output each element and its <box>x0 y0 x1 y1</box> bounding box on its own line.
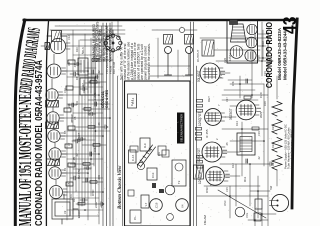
capacitor C22 <box>246 79 248 83</box>
chassis part dark lug A <box>152 183 156 188</box>
resistor cluster above V1 <box>197 155 203 168</box>
antenna coil assembly A <box>78 58 88 75</box>
svg-text:C9: C9 <box>75 101 79 105</box>
wire grid schematic1 horizontals <box>70 30 99 224</box>
svg-text:R5: R5 <box>63 130 67 134</box>
svg-text:C-16: C-16 <box>131 154 135 161</box>
svg-text:43: 43 <box>280 17 300 35</box>
banner bottom rule <box>46 20 48 226</box>
wire pilot stub <box>152 29 197 31</box>
resistor R5 <box>88 126 95 129</box>
ground G6 <box>268 59 273 63</box>
svg-text:FM-AM: FM-AM <box>203 215 207 225</box>
chassis part plug rect <box>130 210 141 223</box>
svg-text:R11: R11 <box>243 176 247 182</box>
additional long bus wires schematic1 <box>67 26 102 220</box>
svg-text:C20: C20 <box>259 92 263 98</box>
svg-text:10K: 10K <box>93 147 97 152</box>
svg-text:T2: T2 <box>177 180 181 184</box>
svg-text:C-14: C-14 <box>131 97 135 104</box>
svg-text:C5: C5 <box>67 182 71 186</box>
svg-text:C10: C10 <box>63 88 67 93</box>
extra small capacitors schematic1 <box>80 198 87 201</box>
layout speaker cone hatched <box>231 24 247 42</box>
wires bottom left <box>248 191 276 226</box>
svg-text:C9: C9 <box>157 152 161 156</box>
svg-text:R3: R3 <box>72 198 76 202</box>
wire to resistors <box>276 76 278 186</box>
resistor blobs near tube row <box>64 60 75 186</box>
svg-text:C17: C17 <box>225 97 229 102</box>
svg-text:.02: .02 <box>75 153 79 157</box>
svg-text:12SK7GT: 12SK7GT <box>197 148 201 162</box>
layout socket V2 <box>245 50 256 61</box>
svg-text:AVC: AVC <box>87 109 91 116</box>
selenium rectifier black label <box>177 113 184 144</box>
svg-text:Model 05RA33-43-8244A: Model 05RA33-43-8244A <box>283 28 288 80</box>
explanatory paragraph <box>120 42 151 80</box>
resistor zigzag R21 <box>272 155 282 170</box>
trimmer caps near tube row <box>68 72 81 180</box>
svg-text:C7: C7 <box>67 142 71 146</box>
schematic1 tube V1 12SA7 <box>50 186 68 199</box>
chassis part electrolytic can <box>150 199 163 212</box>
resistor R2 <box>90 181 97 184</box>
chassis part C-13 <box>147 168 157 180</box>
svg-text:R7: R7 <box>81 83 85 87</box>
schematic1 tube V4 <box>48 130 65 142</box>
resistor R3 <box>83 163 90 166</box>
filter cap A <box>164 35 173 76</box>
svg-text:47K: 47K <box>231 81 235 86</box>
extra labels schematic2 <box>223 41 275 218</box>
svg-text:mounted on the chassis.: mounted on the chassis. <box>147 43 151 80</box>
chassis part L7 coil <box>141 195 149 208</box>
right rail wires <box>55 21 125 38</box>
svg-text:OSC & RES: OSC & RES <box>105 89 109 108</box>
schematic2 tube V1 12SA7 <box>206 167 230 186</box>
candohm resistor block <box>255 199 262 209</box>
chassis part socket S3 <box>165 185 175 195</box>
svg-text:35Z5: 35Z5 <box>259 111 263 118</box>
resistor R6 <box>84 108 91 111</box>
schematic2 wire verticals <box>197 38 268 196</box>
output transformer T4 <box>237 133 255 155</box>
chassis part small circle C <box>167 214 174 221</box>
schematic1 tube V6 <box>46 89 63 101</box>
chassis part small square B <box>130 146 138 152</box>
volume control pot <box>235 207 245 217</box>
schematic2 labels <box>196 50 263 194</box>
additional vertical wires schematic1 <box>67 35 110 210</box>
svg-text:R9: R9 <box>75 76 79 80</box>
svg-text:.02: .02 <box>97 70 101 74</box>
dial cord hatched bar <box>137 145 156 170</box>
chassis part tube socket S2 <box>176 199 189 212</box>
schematic2 tube V2 12SK7 <box>202 142 227 162</box>
svg-text:.05: .05 <box>97 122 101 126</box>
svg-text:.05: .05 <box>225 142 229 146</box>
schematic1 IF transformer T2 <box>46 122 59 129</box>
chassis part trimmer strip <box>158 146 166 155</box>
wire grid schematic1 verticals <box>50 30 125 216</box>
chassis part trimmer <box>162 150 169 157</box>
svg-text:C18: C18 <box>155 202 159 208</box>
junction dots schematic2 <box>229 37 269 197</box>
schematic1 tube V3 <box>49 148 66 160</box>
svg-text:CORONADO RADIO: CORONADO RADIO <box>265 22 274 88</box>
tube layout box <box>227 20 258 63</box>
B+ bus lines <box>103 23 113 226</box>
svg-text:L7: L7 <box>144 202 148 206</box>
ground G5 <box>268 162 273 166</box>
svg-text:OSC: OSC <box>205 186 209 193</box>
chassis part T2 <box>172 160 186 186</box>
layout socket V1 <box>230 46 243 59</box>
tube socket key circle <box>104 34 122 52</box>
filter cap B <box>185 35 194 76</box>
svg-text:C13: C13 <box>151 172 155 178</box>
svg-text:R23: R23 <box>271 125 275 130</box>
wire vertical drops schematic1 <box>59 46 110 192</box>
layout magnet rect <box>230 20 238 25</box>
schematic1 IF transformer T3 <box>46 101 59 108</box>
voltage note text block <box>92 21 113 62</box>
resistor R4 <box>93 144 100 147</box>
svg-text:OUTPUT: OUTPUT <box>196 50 200 63</box>
svg-text:22K: 22K <box>67 103 71 108</box>
ground symbol G1 <box>99 202 104 206</box>
schematic1 output tube V8 with grid cap <box>41 38 70 53</box>
chassis part gang cond <box>128 94 137 108</box>
svg-text:BOTTOM: BOTTOM <box>112 61 116 74</box>
speaker <box>270 194 289 211</box>
chassis labels <box>130 97 185 220</box>
resistor zigzag R22 <box>272 137 282 152</box>
svg-text:.02: .02 <box>257 156 261 160</box>
chassis part dark lug B <box>159 189 164 193</box>
svg-text:IF 455: IF 455 <box>205 129 209 138</box>
svg-text:12SA7: 12SA7 <box>228 53 232 61</box>
svg-text:DET: DET <box>207 96 211 102</box>
capacitor C2 <box>90 152 92 156</box>
capacitor C4 <box>92 70 94 74</box>
label C8 C9 C10 <box>101 89 109 108</box>
svg-text:Model 05RA33-43-8233A: Model 05RA33-43-8233A <box>277 28 282 80</box>
svg-text:V4: V4 <box>181 204 185 208</box>
schematic1 tube V7 <box>47 64 66 78</box>
resistor R7 <box>90 81 97 84</box>
power supply note <box>284 124 294 169</box>
layout socket V4 <box>247 24 257 34</box>
oscillator coil hatched <box>47 31 67 42</box>
svg-text:1MEG: 1MEG <box>93 93 97 100</box>
svg-text:P.L.: P.L. <box>133 215 137 220</box>
svg-text:C1: C1 <box>69 194 73 198</box>
antenna coil assembly B <box>80 78 95 95</box>
svg-text:SELENIUM RECTIFIER: SELENIUM RECTIFIER <box>179 113 183 142</box>
schematic2 small parts <box>244 96 251 99</box>
svg-text:R14: R14 <box>235 121 239 126</box>
resistor cluster above V3 <box>197 99 203 112</box>
chassis part small square A <box>128 190 134 196</box>
wires below layout box <box>258 30 268 60</box>
extra labels schematic1 <box>63 35 101 214</box>
resistor R8 <box>92 59 99 62</box>
schematic2 output IF transformer <box>202 40 214 56</box>
svg-text:C8: C8 <box>73 116 77 120</box>
wires mid right gap <box>85 62 103 86</box>
on-off switch <box>254 213 261 221</box>
svg-text:.005: .005 <box>97 174 101 180</box>
diagonal dial wire <box>218 190 266 218</box>
svg-text:VOL: VOL <box>245 212 249 218</box>
schematic2 tube V4 50L6 <box>200 63 225 83</box>
svg-text:OSC: OSC <box>223 200 227 206</box>
layout socket V3 <box>246 37 257 48</box>
capacitor C1 <box>86 178 88 182</box>
svg-text:R19: R19 <box>253 33 257 38</box>
svg-text:MAXIMUM POSITION.: MAXIMUM POSITION. <box>109 27 113 62</box>
schematic1 tube V2 <box>49 167 66 179</box>
junction dots schematic1 <box>84 70 111 211</box>
svg-text:OSC: OSC <box>91 189 95 196</box>
svg-text:150: 150 <box>93 43 97 48</box>
svg-text:C11: C11 <box>67 61 71 66</box>
chassis part C-16 can <box>129 150 137 163</box>
svg-text:Bottom Chassis View: Bottom Chassis View <box>118 165 123 210</box>
chassis view box outline <box>125 81 191 226</box>
resistor zigzag R24 <box>272 101 282 116</box>
svg-text:T3: T3 <box>219 74 223 78</box>
svg-text:R22: R22 <box>271 143 275 148</box>
svg-text:R-9: R-9 <box>143 143 147 148</box>
schematic1 IF transformer T1 <box>47 159 60 166</box>
ground symbol G2 <box>103 125 108 129</box>
schematic2 bus wires <box>191 22 197 226</box>
svg-text:C12: C12 <box>67 35 71 40</box>
svg-text:Intermediate Frequency—455 KC.: Intermediate Frequency—455 KC. <box>290 128 294 169</box>
svg-text:C15: C15 <box>225 187 229 192</box>
layout labels <box>228 53 261 61</box>
schematic2 tube V3 12SQ7 <box>205 109 226 126</box>
resistor zigzag R23 <box>272 119 282 134</box>
bus wires above chassis box <box>118 76 123 226</box>
socket key labels <box>105 61 116 74</box>
mid wires right of chassis box <box>148 38 190 80</box>
capacitor C13 mid <box>96 75 98 79</box>
schematic2 rectifier tube V5 35Z5 <box>236 100 260 120</box>
svg-text:R12: R12 <box>231 163 235 168</box>
resistor R15 <box>252 127 259 130</box>
svg-text:220K: 220K <box>94 202 98 208</box>
wire detector drops <box>222 80 258 100</box>
svg-text:R10: R10 <box>75 47 79 52</box>
schematic2 tube type labels <box>197 70 233 184</box>
svg-text:MANUAL OF 1951 MOST-OFTEN-NE: MANUAL OF 1951 MOST-OFTEN-NE <box>15 94 35 226</box>
label cluster schematic1 <box>69 47 95 218</box>
svg-text:C19: C19 <box>257 131 261 136</box>
schematic2 wire horizontals <box>230 22 268 226</box>
svg-text:C24: C24 <box>223 58 227 63</box>
svg-text:35Z5GT: 35Z5GT <box>229 108 233 120</box>
chassis part R group <box>140 138 150 151</box>
schematic1 loop antenna <box>52 194 78 224</box>
wire top row link <box>52 54 56 199</box>
svg-text:SW: SW <box>269 185 273 190</box>
extra part labels schematic2 <box>209 33 263 186</box>
svg-text:12SQ7GT: 12SQ7GT <box>198 112 202 126</box>
resistor R1 <box>78 202 85 205</box>
capacitor C21 <box>246 159 248 163</box>
capacitor C3 <box>95 102 97 106</box>
pilot lamp <box>179 27 184 32</box>
svg-text:CORONADO RADIO MODEL 05RA4-43-: CORONADO RADIO MODEL 05RA4-43-9574A <box>34 60 45 226</box>
svg-text:R21: R21 <box>271 161 275 166</box>
schematic1 tube V5 <box>47 112 64 124</box>
resistor cluster above V2 <box>196 127 202 140</box>
schematic2 input IF transformer <box>194 165 204 179</box>
